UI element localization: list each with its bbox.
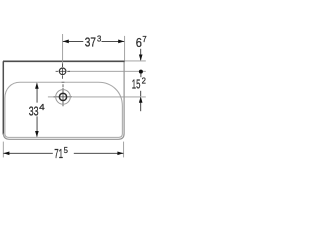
dim 71-5 right arrow bbox=[117, 151, 123, 155]
dim 71-5 left extension line bbox=[2, 142, 4, 158]
faucet horizontal centerline extension bbox=[68, 70, 146, 72]
dim 37-3 right arrow bbox=[118, 40, 124, 44]
dim 6-7 down arrow bbox=[139, 55, 143, 61]
svg-text:4: 4 bbox=[39, 102, 45, 112]
dim 33-4 vertical line bbox=[36, 84, 38, 103]
svg-text:37: 37 bbox=[85, 35, 96, 50]
centerline dash on bowl edge bbox=[62, 81, 65, 83]
svg-text:7: 7 bbox=[142, 34, 146, 44]
faucet hole vertical extension line bbox=[62, 34, 64, 67]
dim 37-3 line bbox=[63, 40, 84, 42]
svg-text:3: 3 bbox=[97, 33, 101, 43]
svg-text:6: 6 bbox=[136, 35, 142, 50]
drain centerline left dash bbox=[48, 96, 55, 98]
drain inner circle bbox=[59, 93, 66, 100]
svg-text:33: 33 bbox=[29, 103, 39, 118]
dim 33-4 down arrow bbox=[35, 131, 39, 137]
dim 71-5 right extension line bbox=[123, 142, 125, 158]
dim 71-5 left arrow bbox=[3, 151, 9, 155]
dim 33-4 up arrow bbox=[35, 82, 39, 88]
dim 15-2 dot bbox=[139, 70, 143, 74]
washbasin outer rect left edge bbox=[2, 61, 4, 134]
dim 37-3 right extension line bbox=[124, 36, 126, 61]
svg-text:5: 5 bbox=[64, 145, 68, 155]
dim 6-7 vertical line bbox=[140, 49, 142, 60]
top edge extension right bbox=[125, 60, 146, 62]
dim 71-5 line bbox=[3, 152, 52, 154]
drain horizontal centerline extension bbox=[73, 96, 146, 98]
faucet hole circle bbox=[59, 68, 66, 75]
washbasin outer rect bottom and right edge bbox=[3, 61, 124, 139]
washbasin top back edge bbox=[3, 60, 125, 62]
dim 37-3 left arrow bbox=[63, 40, 69, 44]
faucet hole crosshair bbox=[56, 64, 70, 79]
svg-text:2: 2 bbox=[142, 75, 146, 85]
dim 15-2 vertical line bbox=[140, 74, 142, 78]
svg-text:15: 15 bbox=[132, 77, 141, 92]
basin bowl outline bbox=[5, 82, 122, 137]
svg-text:71: 71 bbox=[54, 146, 63, 161]
drain crosshair bbox=[54, 84, 73, 106]
dim 15-2 up arrow bbox=[139, 96, 143, 102]
drain outer circle bbox=[56, 90, 71, 105]
